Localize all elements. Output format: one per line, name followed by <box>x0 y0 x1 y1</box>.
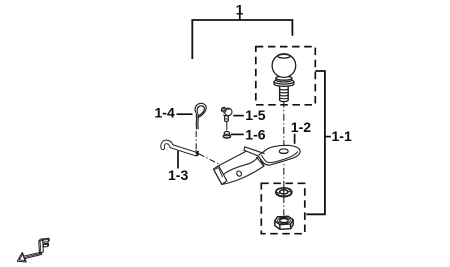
hex nut <box>275 216 293 229</box>
bracket for group 1 <box>192 20 292 59</box>
leader line 1-5 <box>233 115 244 117</box>
leader line 1-2 <box>294 134 296 144</box>
ball shank threaded <box>280 84 289 102</box>
pin tip hole <box>195 151 200 156</box>
ball flange lower disc <box>274 82 294 86</box>
svg-text:1-4: 1-4 <box>155 104 175 120</box>
svg-text:1-2: 1-2 <box>291 119 311 135</box>
svg-text:1-5: 1-5 <box>245 107 265 123</box>
R-clip 1-4 <box>195 103 206 129</box>
leader line 1-3 <box>177 151 179 169</box>
bracket for group 1-1 <box>306 71 325 214</box>
centerline ball axis upper <box>283 101 285 152</box>
centerline ball axis middle <box>283 155 285 188</box>
dashed box around washer and nut <box>261 183 305 233</box>
lock washer <box>276 187 292 198</box>
tube right end edge <box>256 157 263 166</box>
tube end face <box>214 166 227 185</box>
svg-text:1-1: 1-1 <box>332 128 352 144</box>
svg-text:1-6: 1-6 <box>245 127 265 143</box>
ball flat top <box>278 54 290 58</box>
hitch pin 1-3 <box>163 142 200 156</box>
logo arrow shaft <box>24 252 42 259</box>
logo arrowhead <box>17 253 26 263</box>
svg-text:1-3: 1-3 <box>168 167 188 183</box>
tube side hole <box>236 170 243 177</box>
leader tick for label 1-1 <box>325 136 331 138</box>
nut 1-6 <box>223 131 231 138</box>
tube body silhouette <box>214 150 265 184</box>
front direction logo <box>17 238 49 262</box>
centerline pin axis vertical <box>195 131 197 150</box>
receiver tube of drawbar <box>214 150 265 184</box>
ball flange upper disc <box>276 78 292 82</box>
logo letter F top bar <box>43 238 50 242</box>
centerline ball axis lower <box>283 197 285 216</box>
logo letter F stem <box>39 239 44 253</box>
hitch ball <box>272 54 296 102</box>
leader tick for label 1 <box>239 14 241 20</box>
drawbar tongue strap 1-2 <box>244 145 300 165</box>
leader line 1-4 <box>177 113 193 115</box>
strap plate top-left edge overshoot <box>259 153 263 155</box>
tube front top crease <box>224 157 259 174</box>
bolt 1-5 <box>221 107 232 121</box>
ball hole in strap <box>279 149 288 154</box>
bolt axis line between 1-5 and 1-6 <box>226 122 228 131</box>
dashed box around hitch ball <box>256 47 315 105</box>
logo letter F mid bar <box>43 243 48 247</box>
strap step inner crease <box>261 151 298 162</box>
leader line 1-6 <box>231 133 244 135</box>
centerline pin axis diagonal <box>199 154 220 165</box>
ball sphere <box>272 54 296 78</box>
strap arm top edge overshoot <box>262 152 264 155</box>
